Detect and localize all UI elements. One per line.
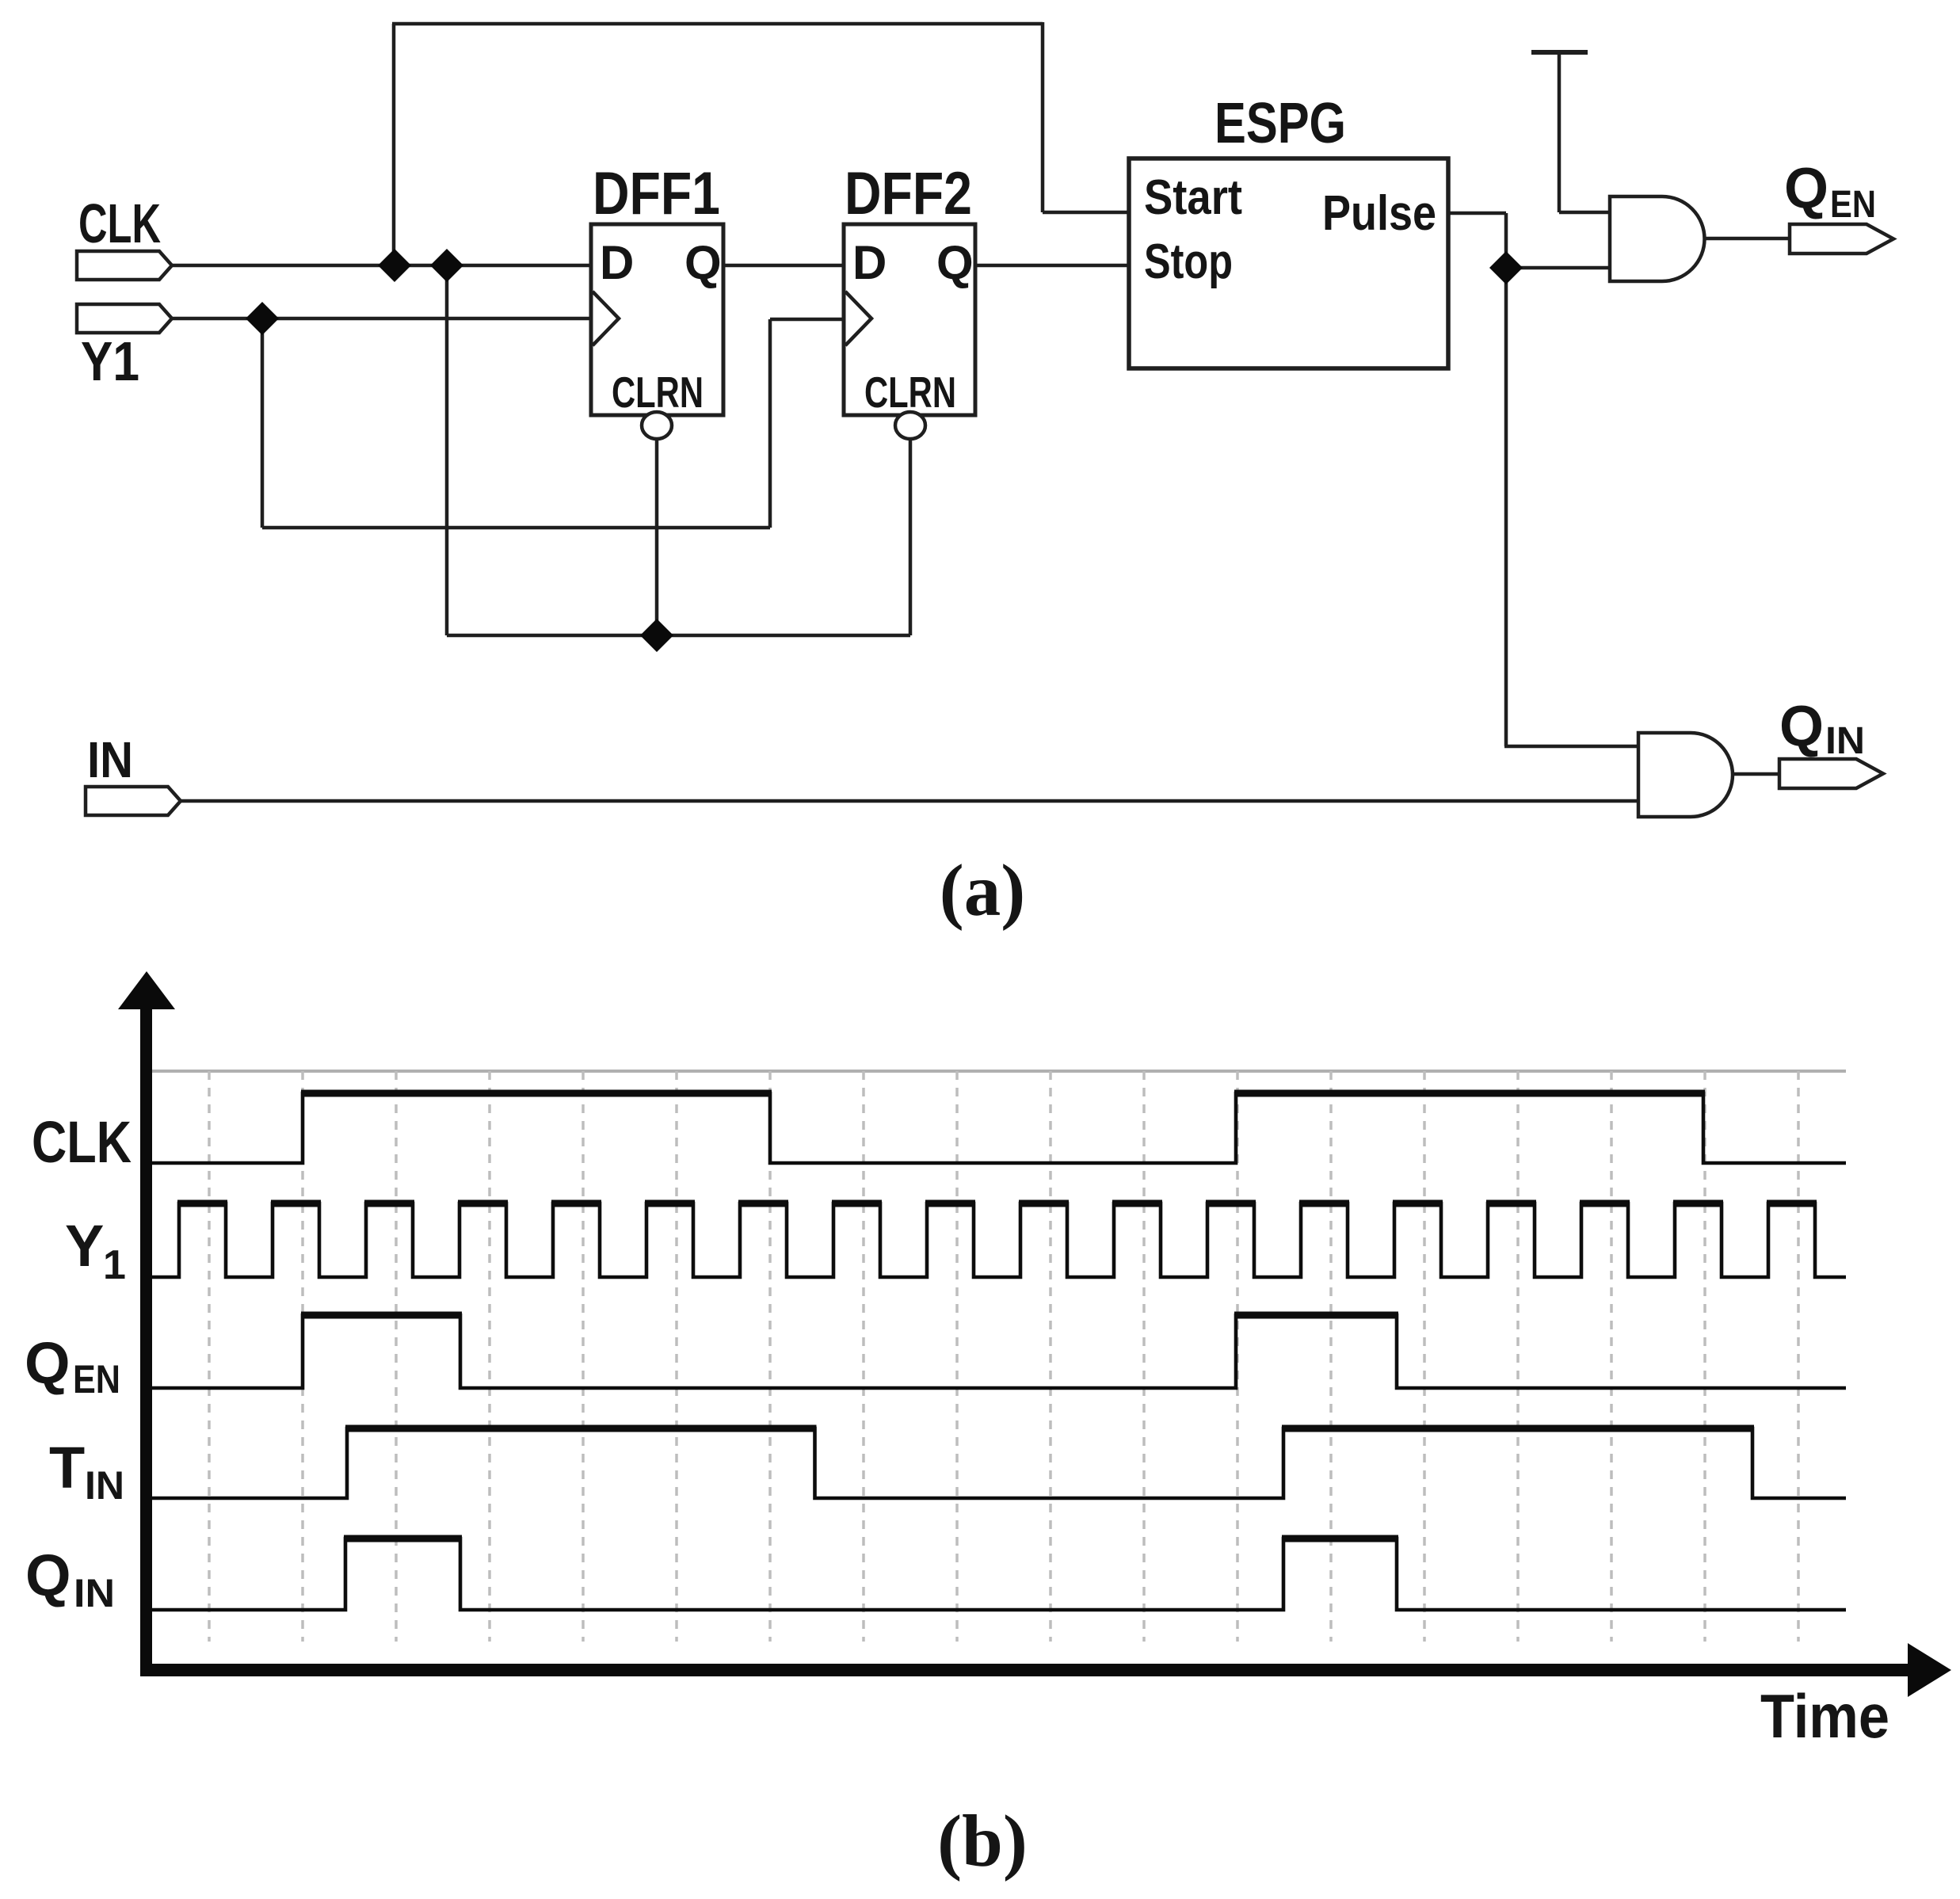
label TIN (timing): [49, 1435, 124, 1508]
flip-flop DFF2 box: [844, 224, 975, 415]
clock triangle of DFF1: [593, 292, 619, 345]
wire: CLK bus from connector to DFF1 D: [170, 264, 591, 268]
svg-text:D: D: [852, 236, 887, 289]
wire: into DFF2 clock pin: [770, 318, 844, 322]
wire: IN bus to AND2 lower input: [181, 799, 1638, 803]
svg-text:IN: IN: [85, 1463, 124, 1508]
svg-text:Start: Start: [1144, 170, 1242, 225]
wire: DFF2 CLRN bubble drop: [909, 440, 913, 635]
svg-text:(b): (b): [937, 1801, 1028, 1882]
svg-text:(a): (a): [940, 850, 1025, 932]
wire: DFF1 Q to DFF2 D: [723, 264, 844, 268]
node: junction on CLK bus (CLRN tap): [430, 249, 463, 282]
svg-text:DFF2: DFF2: [845, 160, 972, 227]
axis X (horizontal): [140, 1643, 1951, 1697]
svg-text:CLRN: CLRN: [612, 368, 704, 417]
wire: AND2 output to QIN connector: [1733, 772, 1779, 776]
wire: Y1 lower horizontal run: [262, 526, 770, 530]
input connector CLK: [77, 251, 172, 280]
wire: Y1 tap vertical down: [261, 318, 265, 528]
svg-text:Y: Y: [65, 1213, 104, 1279]
label QEN: [1784, 157, 1876, 226]
svg-text:Time: Time: [1760, 1681, 1889, 1751]
wire: feedback vertical from CLK node up: [392, 24, 396, 265]
svg-text:CLRN: CLRN: [864, 368, 956, 417]
svg-text:IN: IN: [87, 731, 133, 788]
wire: Pulse node to AND1 lower input: [1506, 266, 1610, 270]
label QIN (timing): [25, 1542, 115, 1615]
output connector QEN: [1790, 224, 1893, 254]
wire: AND2 upper input horizontal: [1504, 745, 1638, 749]
label Y1 (timing): [65, 1213, 126, 1288]
wire: Pulse node long drop to AND2: [1504, 268, 1508, 746]
svg-text:EN: EN: [73, 1357, 120, 1401]
svg-text:CLK: CLK: [32, 1109, 132, 1175]
bubble CLRN of DFF2: [895, 412, 925, 439]
svg-text:Q: Q: [25, 1542, 71, 1608]
input connector IN: [86, 787, 181, 815]
wire: CLRN horizontal run: [447, 634, 910, 638]
gate AND2: [1638, 733, 1733, 817]
waveform CLK: [151, 1093, 1846, 1163]
wire: CLRN tap vertical from CLK node down: [445, 265, 449, 635]
wire: DFF1 CLRN bubble drop: [655, 440, 659, 635]
svg-text:Q: Q: [1784, 157, 1828, 220]
svg-text:Y1: Y1: [81, 330, 139, 392]
wire: VCC to AND1 upper input: [1559, 211, 1610, 215]
wire: feedback drop to ESPG Start: [1041, 22, 1045, 212]
svg-text:1: 1: [103, 1242, 126, 1288]
svg-text:EN: EN: [1830, 184, 1876, 226]
output connector QIN: [1779, 759, 1883, 788]
svg-text:Stop: Stop: [1144, 235, 1233, 289]
svg-text:Q: Q: [684, 236, 722, 289]
waveform Y1: [151, 1203, 1846, 1277]
block ESPG box: [1129, 158, 1448, 368]
svg-text:Pulse: Pulse: [1322, 186, 1436, 241]
flip-flop DFF1 box: [591, 224, 723, 415]
input connector Y1: [77, 304, 172, 333]
wire: DFF2 Q to ESPG Stop: [975, 264, 1129, 268]
svg-text:Q: Q: [25, 1330, 71, 1396]
waveform TIN: [151, 1428, 1846, 1498]
wire: into ESPG Start pin: [1043, 211, 1129, 215]
axis Y (vertical): [118, 971, 175, 1676]
wire: Pulse drop to node: [1504, 213, 1508, 268]
wire: riser to DFF2 clock: [768, 319, 772, 528]
svg-text:Q: Q: [936, 236, 974, 289]
grid: top boundary gray line: [152, 1070, 1846, 1073]
power VCC tee symbol: [1531, 52, 1588, 212]
node: junction on CLK bus (feedback tap): [378, 249, 411, 282]
svg-text:D: D: [600, 236, 634, 289]
svg-text:DFF1: DFF1: [593, 160, 720, 227]
gate AND1: [1610, 196, 1704, 281]
svg-text:Q: Q: [1779, 695, 1824, 758]
svg-text:ESPG: ESPG: [1215, 92, 1346, 155]
svg-text:T: T: [49, 1435, 85, 1501]
clock triangle of DFF2: [845, 292, 871, 345]
label QEN (timing): [25, 1330, 120, 1401]
wire: ESPG Pulse output: [1448, 212, 1506, 215]
svg-text:CLK: CLK: [78, 193, 161, 254]
waveform QIN: [151, 1539, 1846, 1610]
wire: Y1 bus to DFF1 clock: [170, 317, 591, 321]
node: junction on CLRN run: [640, 619, 673, 652]
node: junction on Pulse net: [1489, 251, 1523, 284]
svg-text:IN: IN: [1825, 720, 1865, 762]
wire: AND1 output to QEN connector: [1704, 237, 1790, 241]
bubble CLRN of DFF1: [642, 412, 672, 439]
waveform QEN: [151, 1315, 1846, 1388]
svg-text:IN: IN: [74, 1571, 115, 1615]
label QIN: [1779, 695, 1865, 762]
wire: feedback top horizontal run: [392, 22, 1043, 26]
grid: dashed vertical lines: [209, 1071, 1798, 1642]
node: junction on Y1 bus: [246, 302, 279, 335]
